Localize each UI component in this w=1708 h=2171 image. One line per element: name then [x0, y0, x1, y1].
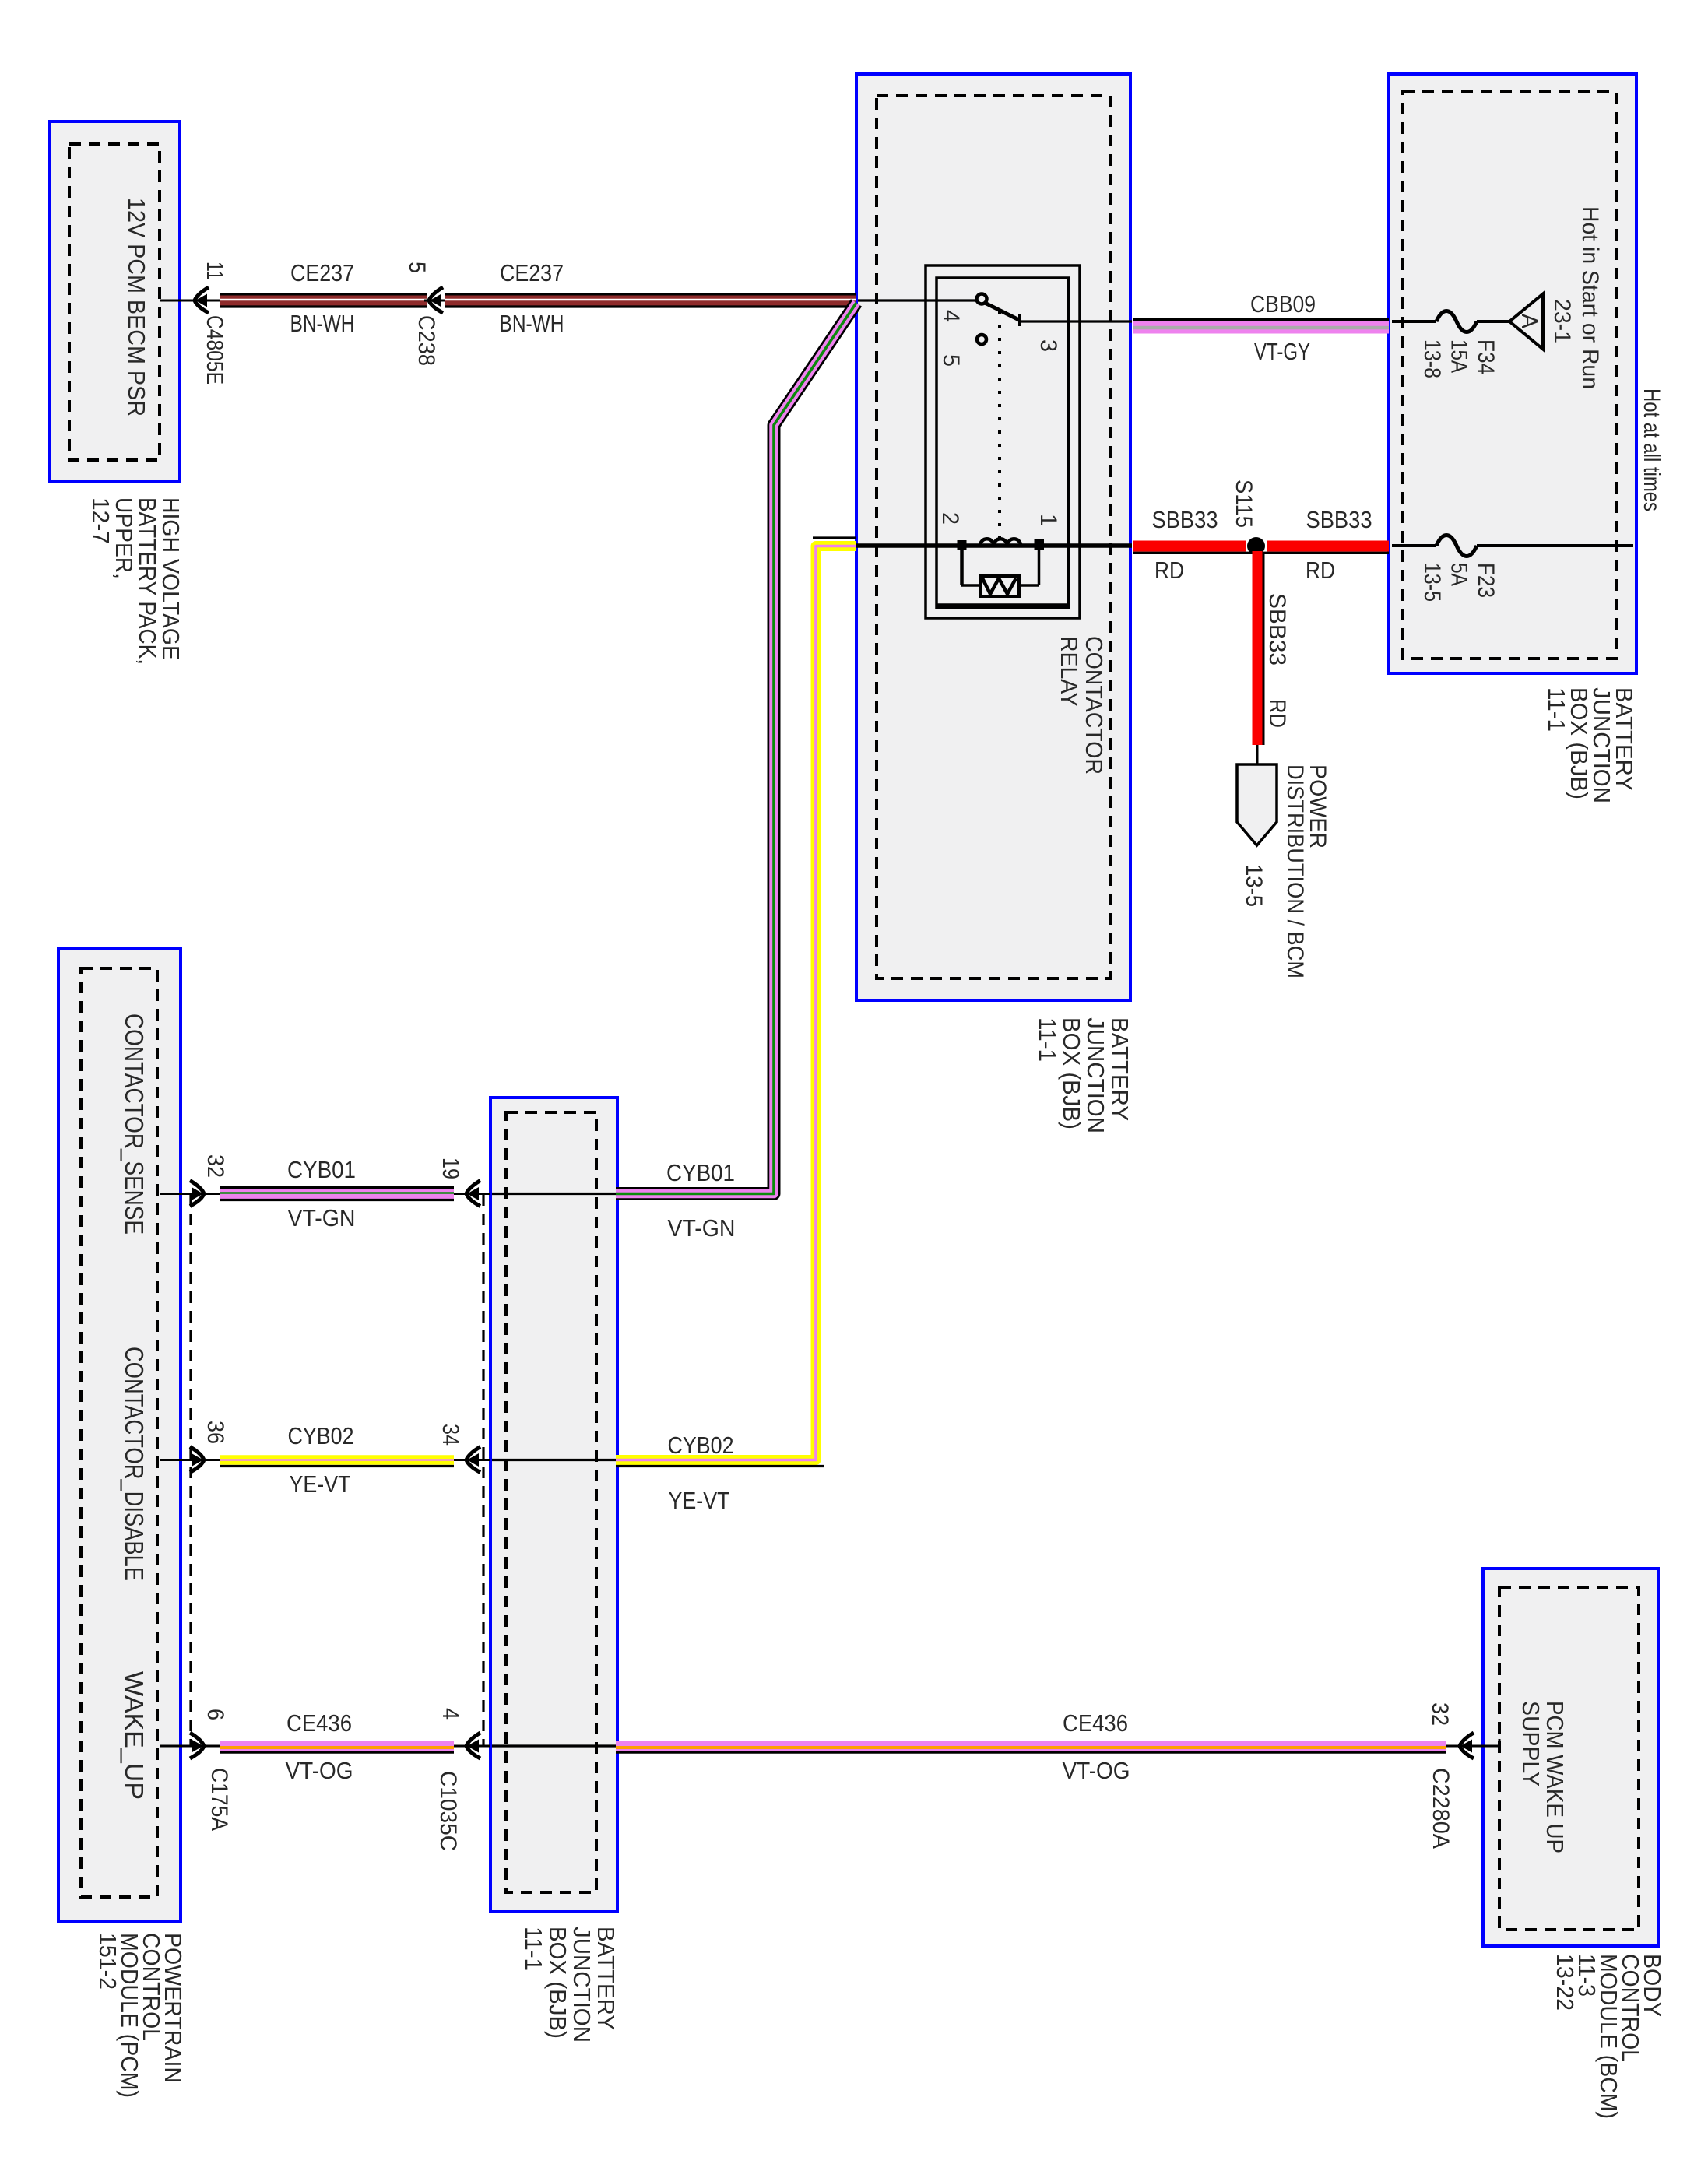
svg-text:Hot at all times: Hot at all times [1639, 388, 1664, 511]
svg-text:13-5: 13-5 [1241, 864, 1267, 907]
svg-text:CE436: CE436 [286, 1709, 352, 1737]
module box: POWERTRAIN CONTROL MODULE (PCM) [58, 948, 181, 1921]
svg-text:C175A: C175A [206, 1768, 232, 1831]
relay coil [980, 539, 1021, 546]
connector C1035C pin 19 symbol [466, 1181, 480, 1207]
svg-text:VT-OG: VT-OG [1063, 1757, 1130, 1784]
in-line connector C238 pin 5 symbol [429, 287, 443, 313]
connector C175A pin 6 symbol [190, 1733, 204, 1758]
svg-text:VT-GN: VT-GN [288, 1204, 356, 1231]
contactor relay outer case [926, 265, 1080, 618]
relay switch blade [985, 303, 1020, 321]
svg-text:F3415A13-8: F3415A13-8 [1419, 339, 1499, 378]
svg-text:2: 2 [937, 512, 963, 525]
wire relay pin 3 to CBB09 [1021, 320, 1132, 322]
fuse F34 15A [1436, 311, 1477, 332]
svg-text:Hot in Start or Run: Hot in Start or Run [1577, 206, 1603, 389]
svg-text:CE237: CE237 [500, 259, 564, 286]
relay suppression resistor [980, 576, 1019, 596]
off-page reference triangle A 23-1 [1509, 294, 1543, 350]
svg-text:C4805E: C4805E [202, 315, 227, 385]
svg-text:32: 32 [202, 1154, 228, 1178]
svg-text:3: 3 [1035, 339, 1061, 352]
svg-text:CBB09: CBB09 [1250, 290, 1316, 318]
svg-text:CE436: CE436 [1063, 1709, 1128, 1737]
wire stub from HV battery pack to connector C4805E [160, 300, 220, 302]
wire CE237 BN-WH segment 1 [220, 293, 427, 295]
wire SBB33 RD right segment [1267, 541, 1389, 552]
svg-text:34: 34 [438, 1424, 463, 1446]
relay junction node pin 2 [958, 540, 967, 550]
wire from CE237 to relay pin 4 [858, 299, 978, 301]
relay suppression resistor leads [960, 550, 964, 585]
module box: BATTERY JUNCTION BOX (BJB) center [490, 1098, 617, 1912]
relay pin 5 contact circle [977, 335, 986, 344]
svg-text:WAKE_UP: WAKE_UP [120, 1671, 149, 1800]
wire fuse F34 to off-page arrow [1477, 320, 1510, 323]
svg-text:4: 4 [938, 310, 964, 322]
svg-text:CONTACTOR_DISABLE: CONTACTOR_DISABLE [120, 1347, 149, 1581]
wire stub PCM CONTACTOR_SENSE [160, 1193, 220, 1195]
fuse F23 5A [1436, 536, 1477, 557]
svg-text:6: 6 [202, 1709, 228, 1720]
connector C4805E pin 11 symbol [195, 287, 209, 313]
wire CE436 VT-OG long segment to BCM [616, 1741, 1446, 1751]
module box: BATTERY JUNCTION BOX (BJB) containing contactor relay [856, 74, 1130, 1000]
svg-text:CONTACTOR_SENSE: CONTACTOR_SENSE [120, 1013, 149, 1235]
svg-text:C1035C: C1035C [435, 1771, 461, 1851]
svg-text:C238: C238 [413, 315, 439, 366]
wire stub PCM CONTACTOR_DISABLE [160, 1459, 220, 1461]
wire stub PCM WAKE_UP [160, 1745, 220, 1748]
wire fuse F23 to hot at all times [1477, 544, 1633, 547]
svg-text:32: 32 [1427, 1702, 1453, 1726]
wire stub to power distribution symbol [1256, 745, 1259, 766]
wire CYB02 YE-VT segment 2 riser to relay pin 2 [616, 546, 856, 1460]
relay pin 4 contact circle [977, 294, 987, 304]
relay switch-to-coil dotted link [998, 311, 1001, 540]
contactor relay inner case [937, 278, 1069, 608]
wire CBB09 VT-GY [1133, 318, 1389, 321]
svg-text:C2280A: C2280A [1428, 1768, 1453, 1849]
svg-text:CYB01: CYB01 [287, 1156, 356, 1183]
svg-text:19: 19 [438, 1158, 463, 1179]
svg-text:5: 5 [938, 354, 964, 367]
wire CYB02 through BJB [492, 1459, 616, 1461]
svg-text:1: 1 [1035, 514, 1061, 526]
svg-text:VT-GN: VT-GN [668, 1214, 736, 1242]
wire CYB01 VT-GN segment 1 [220, 1186, 454, 1189]
svg-text:A: A [1516, 314, 1542, 328]
wire CYB01 through BJB [492, 1193, 616, 1195]
module box: HIGH VOLTAGE BATTERY PACK, UPPER [50, 121, 180, 482]
wire BJB internal to fuse F23 [1392, 544, 1436, 547]
svg-text:RD: RD [1264, 699, 1290, 728]
wire CYB01 VT-GN segment 2 with riser and diagonal to relay [616, 303, 856, 1194]
svg-text:VT-GY: VT-GY [1254, 338, 1310, 365]
wire BJB internal to fuse F34 [1392, 320, 1436, 323]
connector C2280A pin 32 symbol [1446, 1745, 1499, 1748]
relay junction node pin 1 [1035, 539, 1045, 550]
svg-text:YE-VT: YE-VT [669, 1487, 730, 1514]
module box: BATTERY JUNCTION BOX (BJB) fuse section [1389, 74, 1636, 673]
svg-text:5: 5 [404, 262, 430, 273]
svg-text:CE237: CE237 [290, 259, 354, 286]
connector C175A pin 36 symbol [190, 1447, 204, 1473]
svg-text:RD: RD [1306, 557, 1335, 584]
svg-text:SBB33: SBB33 [1306, 506, 1372, 533]
svg-text:BN-WH: BN-WH [290, 310, 355, 337]
relay coil feed line pins 2-1 [856, 543, 1132, 548]
wire CYB02 YE-VT segment 1 [220, 1455, 454, 1465]
svg-text:36: 36 [202, 1421, 228, 1444]
svg-text:BN-WH: BN-WH [500, 310, 564, 337]
wire SBB33 black underline [1133, 552, 1389, 554]
connector C1035C pin 4 symbol [466, 1733, 480, 1758]
connector C175A pin 32 symbol [190, 1181, 204, 1207]
svg-text:VT-OG: VT-OG [286, 1757, 353, 1784]
connector C1035C pin 34 symbol [466, 1447, 480, 1473]
splice S115 [1247, 537, 1265, 555]
svg-text:RD: RD [1154, 557, 1184, 584]
wire SBB33 RD left segment [1133, 541, 1246, 552]
svg-text:CYB01: CYB01 [666, 1159, 735, 1186]
svg-text:SBB33: SBB33 [1264, 593, 1290, 666]
svg-text:SBB33: SBB33 [1152, 506, 1218, 533]
wire CE436 VT-OG segment 1 [220, 1741, 454, 1751]
svg-text:23-1: 23-1 [1549, 299, 1575, 343]
svg-text:CYB02: CYB02 [288, 1422, 354, 1449]
svg-text:11: 11 [202, 262, 227, 280]
svg-text:S115: S115 [1231, 480, 1256, 528]
harness boundary dashed line right (C1035C side) [482, 1194, 484, 1746]
wire SBB33 RD vertical drop [1253, 551, 1263, 745]
svg-text:12V PCM BECM PSR: 12V PCM BECM PSR [123, 198, 150, 416]
wire CE237 BN-WH segment 2 [445, 293, 856, 295]
harness boundary dashed line left (C175A side) [189, 1194, 192, 1746]
module box: BODY CONTROL MODULE (BCM) [1483, 1569, 1658, 1946]
svg-text:CYB02: CYB02 [668, 1432, 734, 1459]
power distribution / BCM off-page symbol [1237, 764, 1277, 845]
wire CE436 through BJB [492, 1744, 616, 1747]
svg-text:YE-VT: YE-VT [290, 1470, 351, 1498]
svg-text:4: 4 [438, 1708, 463, 1720]
